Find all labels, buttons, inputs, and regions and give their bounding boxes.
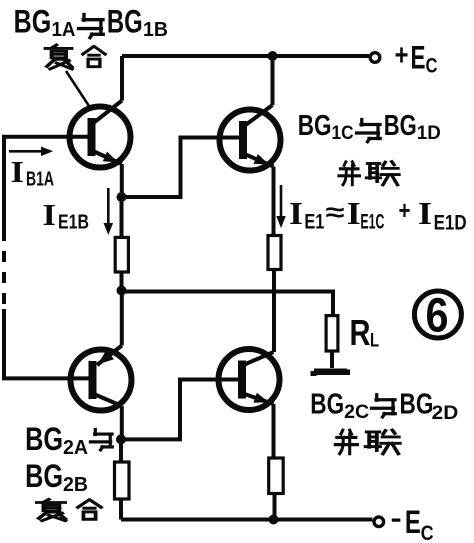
terminal +Ec	[370, 53, 380, 63]
terminal -Ec	[374, 517, 384, 527]
node dot BG2A collector	[116, 434, 126, 444]
wire lower node to R3	[119, 439, 123, 462]
svg-text:≈: ≈	[326, 197, 345, 227]
label BG2A与	[25, 421, 112, 459]
figure number 6	[414, 290, 461, 343]
wire v2 to BG1C collector	[271, 56, 275, 105]
wire BG1A emitter to node	[120, 164, 124, 197]
svg-text:B1A: B1A	[26, 169, 54, 191]
svg-text:I: I	[347, 195, 361, 231]
ground	[311, 369, 351, 377]
svg-text:C: C	[426, 55, 438, 78]
svg-text:E1C: E1C	[360, 211, 384, 234]
label -Ec	[391, 504, 434, 543]
label BG1A与BG1B	[14, 4, 168, 42]
svg-text:BG: BG	[14, 4, 52, 40]
svg-text:I: I	[11, 154, 25, 189]
resistor R4	[269, 458, 284, 494]
svg-text:E: E	[405, 504, 421, 540]
label BG1C与BG1D	[298, 110, 441, 144]
svg-text:1A: 1A	[52, 19, 76, 41]
resistor R3	[115, 462, 130, 499]
svg-text:BG: BG	[400, 389, 434, 421]
wire top rail	[122, 54, 369, 58]
label binglian (parallel) bottom	[335, 430, 400, 454]
label fuhe (composite) top	[46, 45, 106, 69]
label fuhe (composite) bottom	[37, 499, 101, 520]
wire R2 down across output to BG2C collector	[272, 270, 276, 353]
wire v1 to BG1A collector	[120, 56, 124, 101]
svg-text:I: I	[43, 197, 57, 232]
label IE1 = IE1C + IE1D	[289, 195, 467, 235]
svg-text:BG: BG	[25, 458, 63, 494]
svg-text:2B: 2B	[63, 474, 88, 496]
wire R4 to bottom rail	[273, 494, 277, 520]
svg-text:I: I	[289, 195, 303, 231]
node output	[117, 286, 127, 296]
wire BG1C emitter to R2	[272, 167, 276, 236]
label binglian (parallel) top	[339, 162, 399, 185]
transistor BG1A	[70, 101, 131, 168]
resistor R2	[268, 236, 281, 270]
wire node to BG1C base (L shape)	[122, 138, 242, 198]
node dot top rail	[268, 51, 278, 61]
svg-text:+: +	[399, 195, 411, 225]
wire output node to RL	[122, 292, 334, 317]
svg-text:E1D: E1D	[434, 212, 467, 235]
arrow IE1	[276, 185, 286, 228]
wire left feedback dashed section	[2, 230, 6, 309]
svg-text:6: 6	[426, 290, 449, 343]
arrow IE1B	[104, 188, 114, 235]
transistor BG2A (pnp)	[71, 346, 132, 411]
label IE1B	[43, 197, 90, 234]
label BG2C与BG2D	[310, 389, 458, 425]
svg-text:BG: BG	[310, 389, 344, 421]
svg-text:E: E	[411, 40, 426, 76]
svg-text:1C: 1C	[332, 123, 354, 144]
label IB1A	[11, 154, 55, 191]
label +Ec	[395, 39, 438, 78]
svg-text:BG: BG	[25, 421, 63, 457]
resistor R1	[115, 237, 128, 272]
transistor BG1C	[220, 105, 281, 171]
label BG2B	[25, 458, 88, 496]
svg-text:I: I	[418, 195, 432, 231]
wire node to resistor R1	[120, 197, 124, 238]
svg-text:−: −	[391, 504, 401, 537]
svg-text:2C: 2C	[344, 402, 369, 423]
wire BG2A collector to lower node	[120, 406, 124, 439]
node dot bottom rail	[269, 515, 279, 525]
svg-text:E1: E1	[304, 211, 324, 234]
svg-text:BG: BG	[298, 110, 332, 142]
wire RL to ground	[330, 351, 334, 368]
wire BG2C emitter to R4	[272, 404, 276, 458]
svg-text:R: R	[350, 312, 371, 353]
node dot BG1A emitter	[117, 192, 127, 202]
svg-text:L: L	[370, 331, 379, 352]
svg-text:1B: 1B	[143, 19, 168, 41]
svg-text:BG: BG	[107, 4, 143, 40]
wire BG1A base rail	[4, 137, 91, 230]
svg-text:2D: 2D	[432, 403, 459, 424]
wire left feedback lower solid and BG2A base	[4, 309, 91, 378]
svg-text:C: C	[421, 522, 434, 543]
wire lower node to BG2C base (L shape)	[121, 380, 241, 440]
resistor RL	[326, 316, 338, 351]
wire bottom rail	[121, 518, 373, 522]
wire R1 to output node	[120, 272, 124, 292]
svg-text:+: +	[395, 39, 409, 72]
wire R3 to bottom rail	[119, 499, 123, 520]
svg-text:2A: 2A	[63, 437, 88, 459]
arrow IB1A	[9, 147, 53, 157]
svg-text:E1B: E1B	[58, 212, 89, 234]
label RL	[350, 312, 380, 353]
transistor BG2C	[219, 349, 280, 410]
svg-text:1D: 1D	[417, 123, 441, 144]
pointer line from fuhe to BG1A	[66, 71, 89, 106]
svg-text:BG: BG	[384, 110, 417, 142]
wire output node down to BG2A emitter	[120, 291, 124, 346]
